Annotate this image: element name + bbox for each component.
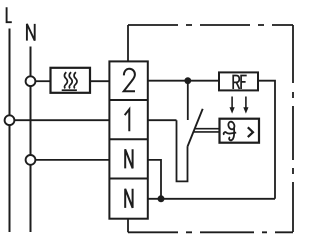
terminal block divider 1 xyxy=(109,99,147,101)
junction dot at relay feed xyxy=(184,77,191,84)
heater E1 floor line xyxy=(62,89,77,91)
enclosure frame right (dash-dot) xyxy=(292,25,294,232)
wire N vertical xyxy=(30,47,32,233)
terminal block divider 3 xyxy=(109,178,147,180)
RF label letter F xyxy=(241,76,247,90)
node terminal circle on L line xyxy=(5,115,15,125)
node terminal circle on N line (N terminal feed) xyxy=(26,155,36,165)
enclosure frame left bottom stub xyxy=(127,219,129,233)
wire RF to right riser xyxy=(258,81,275,199)
enclosure frame top (dash-dot) xyxy=(128,24,293,26)
heater E1 heating element squiggle 1 xyxy=(64,72,67,88)
thermostat theta symbol loop xyxy=(227,121,235,130)
wire terminal 1 to switch xyxy=(148,119,177,121)
thermostat greater-than symbol xyxy=(248,127,253,137)
node terminal circle on N line (heater feed) xyxy=(26,76,36,86)
junction dot at N return xyxy=(158,195,165,202)
wire terminal N to return xyxy=(148,160,161,199)
wire switch bottom loop xyxy=(177,120,188,181)
RF signal arrow 2 xyxy=(243,97,248,114)
enclosure frame bottom (dash-dot) xyxy=(128,231,293,233)
terminal block X1 outline xyxy=(109,61,147,218)
heater E1 heating element squiggle 3 xyxy=(74,72,77,88)
label L (mains live) xyxy=(7,7,12,22)
wire L tap to terminal 1 xyxy=(14,119,109,121)
mechanical link lower line xyxy=(194,131,220,133)
wire N tap to terminal N xyxy=(35,159,109,161)
RF signal arrow 1 xyxy=(230,97,235,114)
heater E1 (underfloor heating load) xyxy=(51,68,91,93)
label N (mains neutral) xyxy=(27,24,35,41)
wire relay fixed contact drop xyxy=(187,81,189,120)
thermostat theta symbol crossbar xyxy=(224,132,236,135)
RF receiver box U1 xyxy=(219,72,258,90)
terminal block divider 2 xyxy=(109,138,147,140)
terminal N label (third cell) xyxy=(125,149,132,168)
thermostat theta symbol descender xyxy=(229,128,234,141)
wire bottom return to N xyxy=(148,198,275,200)
wire L vertical xyxy=(9,29,11,233)
terminal N label (fourth cell) xyxy=(125,189,132,208)
RF label letter R xyxy=(233,76,239,90)
relay switch blade K1 xyxy=(187,109,202,147)
thermostat box B1 xyxy=(220,119,260,143)
mechanical link upper line xyxy=(195,128,219,130)
heater E1 heating element squiggle 2 xyxy=(69,72,72,88)
terminal 2 label xyxy=(124,69,135,91)
wire terminal 2 to RF xyxy=(148,80,219,82)
enclosure frame left top stub xyxy=(127,25,129,61)
wire N tap to heater xyxy=(35,80,50,82)
wire heater to terminal 2 xyxy=(90,80,109,82)
terminal 1 label xyxy=(125,109,130,131)
